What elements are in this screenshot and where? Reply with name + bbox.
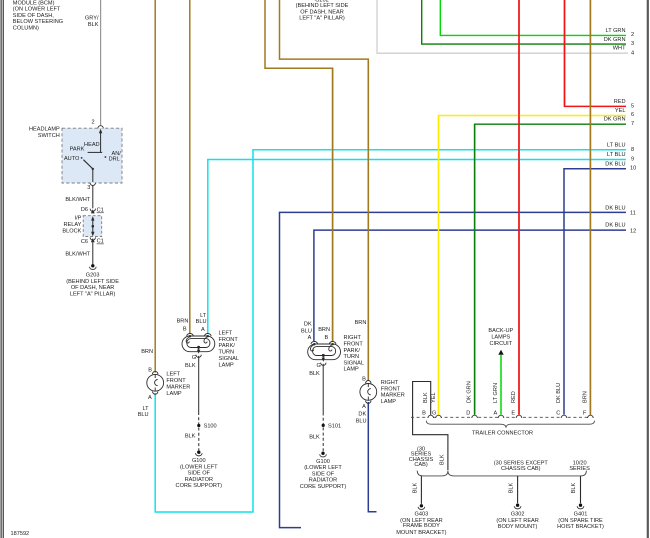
svg-text:BLK: BLK [571, 482, 577, 493]
wire DK GRN from trailer connector pin D to pin 7 [475, 124, 626, 414]
ground G100 location text [176, 458, 223, 489]
svg-text:MARKER: MARKER [166, 385, 190, 391]
svg-text:BLK: BLK [423, 392, 429, 403]
svg-text:CIRCUIT: CIRCUIT [489, 341, 512, 347]
right park/turn lamp G pin cup [321, 363, 326, 366]
wire BRN to right front park/turn lamp [265, 0, 333, 341]
svg-text:FRONT: FRONT [344, 342, 364, 348]
svg-text:HEAD: HEAD [84, 142, 100, 148]
wire LT GRN back-up circuit to trailer connector pin A [500, 355, 502, 415]
wire DK BLU pin 12 to right front park/turn lamp [314, 230, 626, 341]
svg-text:I/P: I/P [75, 216, 82, 222]
switch wiper arm [83, 160, 92, 169]
svg-text:CORE SUPPORT): CORE SUPPORT) [176, 483, 223, 489]
svg-text:2: 2 [631, 32, 634, 38]
wire RED to trailer connector pin E [518, 0, 520, 415]
wire LT BLU marker lamp loop to pin 8 [155, 150, 626, 512]
svg-text:LEFT: LEFT [219, 331, 233, 337]
svg-text:TURN: TURN [219, 350, 235, 356]
svg-text:GRY/: GRY/ [85, 16, 99, 22]
svg-text:FRONT: FRONT [219, 337, 239, 343]
page right border [647, 0, 649, 538]
svg-text:LT: LT [200, 313, 207, 319]
svg-text:BLK: BLK [88, 22, 99, 28]
svg-text:SIDE OF: SIDE OF [312, 471, 335, 477]
svg-text:MODULE (BCM): MODULE (BCM) [13, 0, 55, 6]
back-up circuit arrow [498, 350, 503, 355]
svg-text:DK BLU: DK BLU [556, 383, 562, 403]
svg-text:RIGHT: RIGHT [381, 380, 399, 386]
svg-text:DK BLU: DK BLU [605, 223, 625, 229]
wire DK BLU trailer connector pin C to pin 10 [564, 169, 626, 415]
wire BLK/WHT relay block to G203 [92, 242, 94, 264]
svg-text:B: B [422, 410, 426, 416]
svg-text:C1: C1 [97, 239, 104, 245]
svg-text:S101: S101 [328, 423, 341, 429]
svg-text:10: 10 [630, 165, 636, 171]
svg-text:A: A [362, 404, 366, 410]
wire BRN to right front marker lamp [280, 0, 369, 381]
svg-text:BLU: BLU [356, 418, 367, 424]
svg-text:DK BLU: DK BLU [605, 206, 625, 212]
svg-text:RED: RED [511, 391, 517, 403]
wire BLK to G302 [517, 476, 519, 503]
svg-text:BRN: BRN [141, 349, 153, 355]
svg-text:BLK: BLK [440, 454, 446, 465]
svg-text:SIGNAL: SIGNAL [219, 356, 240, 362]
wire DK BLU pin 11 stub [280, 212, 627, 527]
wire RED vertical overpass (pin 5) [564, 0, 566, 106]
inline connector D6/C1 symbol [90, 209, 95, 212]
splice S101 [322, 424, 325, 427]
ground G100 location text (right) [300, 459, 347, 490]
(30 SERIES CHASSIS CAB) text [409, 446, 434, 468]
wire GRY/BLK label [85, 16, 99, 28]
svg-text:LT BLU: LT BLU [607, 152, 625, 158]
wire LT BLU park/turn lamp to pin 9 [208, 160, 626, 334]
svg-text:LT BLU: LT BLU [607, 142, 625, 148]
svg-text:YEL: YEL [615, 108, 626, 114]
svg-text:BLOCK: BLOCK [62, 229, 81, 235]
svg-text:CORE SUPPORT): CORE SUPPORT) [300, 484, 347, 490]
svg-text:BLK: BLK [185, 434, 196, 440]
svg-text:G100: G100 [192, 458, 206, 464]
ground G302 location text [496, 512, 538, 530]
left front marker lamp [147, 371, 164, 394]
ground G401 symbol [579, 504, 582, 507]
svg-text:SIGNAL: SIGNAL [344, 360, 365, 366]
svg-text:7: 7 [631, 121, 634, 127]
ground G401 location text [557, 512, 604, 530]
wire DK GRN to pin 3 [422, 0, 626, 44]
page left border (double line) [0, 0, 2, 538]
svg-text:LT GRN: LT GRN [493, 383, 499, 403]
I/P relay block dashed box [83, 216, 102, 237]
svg-text:TURN: TURN [344, 354, 360, 360]
svg-text:9: 9 [631, 157, 634, 163]
svg-text:OF DASH, NEAR: OF DASH, NEAR [300, 9, 344, 15]
wire wiper to pin 3 [92, 169, 94, 182]
svg-text:(BEHIND LEFT SIDE: (BEHIND LEFT SIDE [296, 3, 349, 9]
svg-text:A: A [148, 395, 152, 401]
wire RED vertical overpass (pin E) [518, 0, 520, 415]
wire BLK to G403 [420, 476, 422, 504]
wire BRN vertical overpass (pin F) [589, 0, 591, 415]
svg-text:BRN: BRN [583, 391, 589, 403]
wire DK GRN vertical overpass [474, 124, 476, 415]
svg-text:6: 6 [631, 112, 634, 118]
svg-text:G100: G100 [316, 459, 330, 465]
svg-text:BLU: BLU [196, 319, 207, 325]
wire DK BLU right front marker lamp stub [368, 402, 376, 512]
ground G302 symbol [516, 504, 519, 507]
svg-text:G401: G401 [574, 512, 588, 518]
svg-text:A: A [494, 410, 498, 416]
wire BLK trailer pin B routing [413, 382, 448, 471]
10/20 SERIES text [569, 461, 590, 472]
svg-text:G403: G403 [415, 512, 429, 518]
svg-text:HOIST BRACKET): HOIST BRACKET) [557, 524, 604, 530]
ground distribution brace [417, 471, 586, 476]
svg-text:BRN: BRN [177, 318, 189, 324]
svg-text:MOUNT BRACKET): MOUNT BRACKET) [396, 530, 446, 536]
svg-text:PARK: PARK [70, 147, 85, 153]
svg-text:B: B [183, 326, 187, 332]
trailer connector brace [426, 421, 594, 428]
svg-text:LEFT "A" PILLAR): LEFT "A" PILLAR) [70, 292, 116, 298]
svg-text:RELAY: RELAY [63, 222, 81, 228]
svg-text:D: D [466, 410, 470, 416]
svg-text:12: 12 [630, 229, 636, 235]
svg-text:BLK: BLK [309, 435, 320, 441]
wire YEL from trailer connector pin G to pin 6 [439, 116, 627, 415]
svg-text:HEADLAMP: HEADLAMP [29, 126, 60, 132]
svg-text:C6: C6 [81, 239, 88, 245]
svg-text:DK GRN: DK GRN [467, 381, 473, 403]
inline connector C6/C1 symbol [90, 237, 95, 240]
svg-text:DRL: DRL [109, 157, 120, 163]
svg-text:3: 3 [87, 185, 90, 191]
svg-text:BACK-UP: BACK-UP [488, 328, 513, 334]
svg-text:DK GRN: DK GRN [604, 37, 626, 43]
svg-text:FRONT: FRONT [166, 378, 186, 384]
svg-text:LAMP: LAMP [166, 391, 182, 397]
svg-text:BLK: BLK [508, 482, 514, 493]
svg-text:BLK/WHT: BLK/WHT [65, 197, 90, 203]
wire BLK to G401 [580, 476, 582, 503]
svg-text:11: 11 [630, 210, 636, 216]
svg-text:OF DASH, NEAR: OF DASH, NEAR [71, 285, 115, 291]
svg-text:YEL: YEL [431, 392, 437, 403]
wire BRN vertical overpass (right park/turn feed) [332, 68, 334, 341]
svg-text:C: C [556, 410, 560, 416]
svg-text:WHT: WHT [613, 46, 626, 52]
wire WHT from top to pin 4 [377, 0, 628, 53]
svg-text:SIDE OF DASH,: SIDE OF DASH, [13, 13, 54, 19]
trailer connector dashed edge [411, 416, 595, 418]
BCM module location text [13, 0, 63, 31]
right edge pin labels and numbers [604, 28, 626, 229]
wire BRN to left front park/turn lamp [189, 0, 191, 333]
svg-text:DK: DK [358, 411, 366, 417]
svg-text:187592: 187592 [11, 531, 30, 537]
svg-text:LEFT: LEFT [166, 372, 180, 378]
svg-text:CAB): CAB) [414, 462, 428, 468]
trailer connector pin cups [428, 415, 593, 418]
ground G202 location text (clipped at top) [296, 0, 349, 22]
svg-text:DK BLU: DK BLU [605, 162, 625, 168]
svg-text:LEFT "A" PILLAR): LEFT "A" PILLAR) [299, 16, 345, 22]
ground G403 location text [396, 512, 446, 536]
svg-text:D6: D6 [81, 207, 88, 213]
BACK-UP LAMPS CIRCUIT text [488, 328, 513, 347]
svg-text:3: 3 [631, 41, 634, 47]
svg-text:BRN: BRN [355, 320, 367, 326]
left front marker lamp name [166, 372, 190, 398]
svg-text:E: E [511, 410, 515, 416]
pin 3 connector cup [90, 183, 95, 186]
svg-text:DK: DK [304, 322, 312, 328]
svg-text:S100: S100 [204, 424, 217, 430]
wire BRN to trailer connector pin F [589, 0, 591, 415]
ground G100 symbol (right) [321, 452, 324, 455]
svg-text:BLK: BLK [413, 482, 419, 493]
svg-text:B: B [148, 367, 152, 373]
svg-text:(ON LOWER LEFT: (ON LOWER LEFT [13, 7, 61, 13]
right front marker lamp [360, 381, 377, 404]
svg-text:A: A [308, 335, 312, 341]
wire BRN to left front marker lamp [154, 0, 156, 373]
svg-text:RADIATOR: RADIATOR [185, 477, 213, 483]
svg-text:RIGHT: RIGHT [344, 335, 362, 341]
wire YEL vertical overpass [438, 116, 440, 415]
svg-text:PARK/: PARK/ [219, 343, 236, 349]
pin 2 connector cup [98, 126, 103, 129]
switch common contact wire with up arrow [100, 132, 102, 153]
wire BLK left park/turn lamp to S100 [198, 356, 200, 412]
wire BLK S101 to G100 (dashed) [322, 427, 324, 451]
svg-text:COLUMN): COLUMN) [13, 26, 39, 32]
svg-text:8: 8 [631, 147, 634, 153]
svg-text:DK GRN: DK GRN [604, 117, 626, 123]
ground G100 symbol [197, 451, 200, 454]
wire LT GRN to pin 2 [440, 0, 626, 35]
svg-text:BLU: BLU [301, 329, 312, 335]
svg-text:AUTO: AUTO [64, 156, 80, 162]
svg-text:2: 2 [91, 120, 94, 126]
left park/turn lamp G pin cup [196, 355, 201, 358]
svg-text:LT GRN: LT GRN [606, 28, 626, 34]
svg-text:LAMP: LAMP [344, 367, 360, 373]
svg-text:SWITCH: SWITCH [38, 133, 60, 139]
svg-text:F: F [583, 410, 587, 416]
left front park/turn signal lamp name [219, 331, 240, 369]
svg-text:(BEHIND LEFT SIDE: (BEHIND LEFT SIDE [66, 279, 119, 285]
svg-text:RADIATOR: RADIATOR [309, 478, 337, 484]
right front park/turn signal lamp [308, 342, 341, 361]
svg-text:G: G [192, 355, 196, 361]
splice S100 [197, 424, 200, 427]
svg-text:G302: G302 [511, 512, 525, 518]
svg-text:G203: G203 [86, 272, 100, 278]
svg-text:BRN: BRN [318, 327, 330, 333]
svg-text:TRAILER CONNECTOR: TRAILER CONNECTOR [472, 430, 533, 436]
svg-text:5: 5 [631, 103, 634, 109]
svg-text:FRAME BODY: FRAME BODY [403, 523, 440, 529]
svg-text:BODY MOUNT): BODY MOUNT) [498, 524, 538, 530]
wire BLK S100 to G100 (dashed) [198, 428, 200, 451]
ground G203 location text [66, 272, 119, 297]
svg-text:LT: LT [142, 406, 149, 412]
svg-text:A: A [201, 327, 205, 333]
svg-text:LAMP: LAMP [219, 362, 235, 368]
wire BRN vertical overpass (right marker feed) [367, 59, 369, 381]
wire GRY/BLK from BCM to headlamp switch pin 2 [100, 0, 102, 126]
svg-text:BLK: BLK [309, 371, 320, 377]
svg-text:PARK/: PARK/ [344, 348, 361, 354]
svg-text:BLK/WHT: BLK/WHT [65, 252, 90, 258]
svg-text:RED: RED [614, 99, 626, 105]
svg-text:4: 4 [631, 50, 634, 56]
svg-text:SIDE OF: SIDE OF [188, 471, 211, 477]
right front park/turn signal lamp name [344, 335, 365, 373]
svg-text:C1: C1 [97, 208, 104, 214]
svg-text:SERIES: SERIES [569, 466, 590, 472]
svg-text:(LOWER LEFT: (LOWER LEFT [304, 465, 342, 471]
svg-text:(LOWER LEFT: (LOWER LEFT [180, 464, 218, 470]
HEADLAMP SWITCH label [29, 126, 60, 138]
PARK contact bar [88, 151, 103, 153]
(30 SERIES EXCEPT CHASSIS CAB) text [494, 461, 549, 472]
right front marker lamp name [381, 380, 405, 405]
svg-text:CHASSIS CAB): CHASSIS CAB) [501, 466, 541, 472]
ground G403 symbol [420, 504, 423, 507]
wire RED to pin 5 [565, 0, 627, 106]
svg-text:G: G [317, 363, 321, 369]
svg-text:BLK: BLK [185, 363, 196, 369]
left front park/turn signal lamp [182, 334, 215, 353]
svg-text:B: B [324, 335, 328, 341]
ground G203 symbol [91, 264, 94, 267]
headlamp switch dashed box [62, 128, 122, 183]
wire BLK/WHT switch to I/P relay block [92, 186, 94, 209]
svg-text:BLU: BLU [138, 412, 149, 418]
svg-text:MARKER: MARKER [381, 393, 405, 399]
svg-text:BELOW STEERING: BELOW STEERING [13, 19, 63, 25]
relay block internal wire with arrows and junction dot [92, 218, 94, 236]
I/P RELAY BLOCK label [62, 216, 81, 235]
wire BLK right park/turn lamp to S101 [322, 364, 324, 413]
svg-text:FRONT: FRONT [381, 386, 401, 392]
svg-text:LAMPS: LAMPS [491, 335, 510, 341]
svg-text:LAMP: LAMP [381, 399, 397, 405]
